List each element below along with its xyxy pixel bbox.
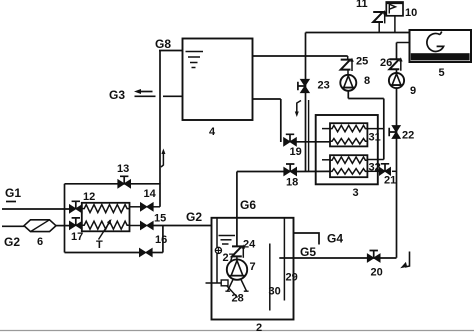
- svg-text:7: 7: [250, 261, 256, 273]
- svg-text:4: 4: [209, 126, 216, 138]
- sensor 27: [215, 247, 221, 253]
- wire: G2 supply into tank 2: [153, 225, 212, 227]
- svg-text:20: 20: [371, 267, 383, 279]
- svg-text:G5: G5: [300, 245, 316, 259]
- svg-text:9: 9: [410, 85, 416, 97]
- pump 9: [396, 70, 398, 73]
- wire: coil31 upper right to pump8 downcomer: [367, 128, 383, 130]
- coil unit 31: [330, 123, 367, 146]
- boiler 5 grate band: [411, 53, 470, 60]
- svg-text:5: 5: [439, 67, 445, 79]
- svg-text:29: 29: [286, 272, 298, 284]
- wire: boiler bottom outlet to pump 9: [397, 42, 410, 44]
- svg-text:22: 22: [402, 130, 414, 142]
- svg-text:6: 6: [37, 236, 43, 248]
- valve 20: [367, 254, 380, 262]
- wire: vessel 10 stub to header: [394, 16, 396, 33]
- valve 18: [284, 168, 297, 176]
- valve 21: [380, 168, 391, 175]
- node G4 tap: [294, 233, 320, 245]
- wire: top header pipe to tank 5: [306, 32, 410, 34]
- svg-text:14: 14: [144, 188, 157, 200]
- svg-text:3: 3: [353, 187, 359, 199]
- svg-text:8: 8: [364, 75, 370, 87]
- wire: bypass bottom riser to G2 out: [162, 226, 164, 253]
- wire: riser to tank4 at G3 level: [163, 95, 183, 97]
- svg-text:2: 2: [256, 322, 262, 333]
- wire: G1 supply line: [2, 208, 70, 210]
- inner suction pipe in tank 2: [216, 218, 218, 283]
- tank 2: [212, 218, 294, 320]
- valve 13: [118, 180, 131, 188]
- liquid level mark in tank 4: [186, 51, 204, 53]
- coil unit 32: [330, 155, 367, 177]
- temperature sensor T: [99, 222, 111, 240]
- G3 outflow double arrow: [137, 91, 153, 93]
- wire: valve19 line into coil31 lower row: [296, 141, 330, 143]
- svg-text:G2: G2: [186, 210, 202, 224]
- tank 4: [183, 39, 253, 121]
- riser pipe 29: [283, 218, 285, 301]
- wire: pump 8 discharge down and over to coil header: [347, 91, 349, 99]
- expansion vessel 10: [386, 2, 403, 16]
- strainer 6: [24, 220, 56, 232]
- svg-text:17: 17: [71, 231, 83, 243]
- wire: bottom page scan line: [0, 330, 474, 332]
- return hook arrow at G5 end: [405, 252, 410, 268]
- svg-text:16: 16: [155, 234, 167, 246]
- foot valve 28: [206, 282, 222, 284]
- svg-text:27: 27: [223, 252, 235, 264]
- liquid level mark in tank 2: [219, 235, 236, 237]
- svg-text:25: 25: [356, 56, 368, 68]
- wire: G5 line from tank 2 to right vertical: [279, 257, 396, 259]
- wire: G6 drop line: [236, 172, 238, 247]
- wire: boiler supply riser: [305, 33, 307, 172]
- valve 16: [140, 249, 153, 257]
- svg-text:12: 12: [83, 191, 95, 203]
- wire: coil32 lower row out through valve 21: [367, 170, 381, 172]
- svg-text:G8: G8: [155, 37, 171, 51]
- svg-text:31: 31: [369, 132, 381, 144]
- svg-text:23: 23: [318, 80, 330, 92]
- wire: exchanger to valve 15: [130, 225, 141, 227]
- svg-text:G4: G4: [327, 232, 343, 246]
- exchanger bypass frame left edge: [64, 184, 66, 253]
- svg-text:21: 21: [384, 175, 396, 187]
- valve 23: [301, 79, 310, 92]
- wire: long return line from G6 corner through valve 18 to coil32: [237, 171, 284, 173]
- exchanger bypass bottom edge: [65, 252, 140, 254]
- wire: left riser lower section to valve14 junction: [159, 184, 161, 207]
- svg-text:T: T: [96, 239, 103, 251]
- wire: main right vertical (pump 9 circuit): [396, 88, 398, 258]
- svg-text:11: 11: [356, 0, 368, 10]
- valve 17: [70, 221, 83, 229]
- flag mark in vessel 10: [389, 4, 395, 13]
- svg-text:18: 18: [286, 177, 298, 189]
- riser pipe 30: [269, 244, 271, 311]
- valve 12: [70, 205, 83, 213]
- svg-text:19: 19: [290, 146, 302, 158]
- valve 15: [141, 222, 154, 230]
- pump 7 intake legs: [228, 279, 247, 291]
- svg-text:30: 30: [269, 286, 281, 298]
- svg-text:G1: G1: [5, 186, 21, 200]
- svg-text:24: 24: [243, 239, 256, 251]
- svg-text:15: 15: [154, 213, 166, 225]
- flow arrow down beside riser: [297, 101, 301, 114]
- flow arrow up on left riser: [161, 151, 163, 167]
- svg-text:G3: G3: [109, 88, 125, 102]
- wire: exchanger to valve 14: [130, 206, 141, 208]
- tank 3: [316, 115, 378, 184]
- burner G mark in boiler 5: [427, 33, 444, 51]
- svg-text:G6: G6: [240, 198, 256, 212]
- exchanger bypass top edge: [65, 183, 161, 185]
- svg-text:G2: G2: [4, 235, 20, 249]
- boiler 5: [410, 30, 472, 62]
- wire: G2 inlet line: [2, 225, 24, 227]
- svg-text:13: 13: [117, 163, 129, 175]
- wire: strainer to valve 17: [56, 225, 70, 227]
- svg-text:10: 10: [405, 7, 417, 19]
- wire: tank4 right to check valve 25 / pump 8: [253, 55, 348, 57]
- valve 14: [141, 203, 154, 211]
- valve 19: [284, 138, 297, 146]
- svg-text:28: 28: [232, 293, 244, 305]
- wire: tank4 right lower outlet elbow down to valve 19: [253, 98, 281, 100]
- pump 8: [347, 70, 349, 75]
- plate exchanger body: [82, 203, 130, 232]
- wire: coil32 upper right stub to pump8 downcomer: [367, 159, 383, 161]
- pump 7: [236, 256, 238, 259]
- wire: coil31 upper left stub: [322, 128, 330, 130]
- wire: coil32 upper left stub: [322, 159, 330, 161]
- valve 22: [392, 126, 400, 139]
- wire: left riser from G8 down to exchanger top edge: [159, 51, 161, 185]
- wire: doubled riser stroke (scan artifact): [308, 100, 310, 171]
